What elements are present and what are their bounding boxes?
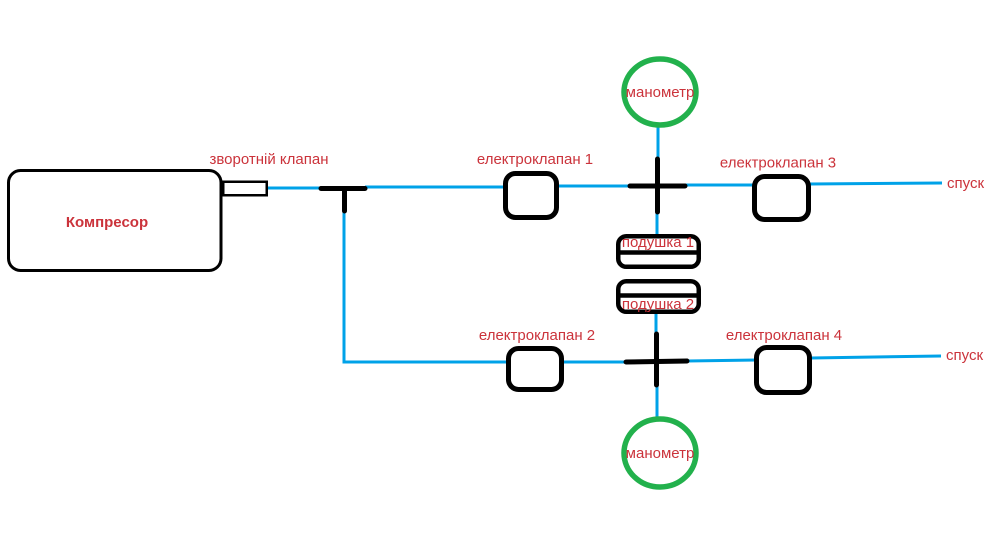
bottom manometer label манометр [626, 445, 695, 462]
wire: electrovalve 1 to cross junction 1 [557, 185, 630, 188]
svg-text:Компресор: Компресор [66, 214, 148, 231]
svg-text:подушка 1: подушка 1 [622, 234, 694, 251]
tee junction [321, 189, 365, 212]
wire: tee down-drop to bottom branch [344, 191, 508, 362]
svg-text:електроклапан 1: електроклапан 1 [477, 151, 593, 168]
bottom manometer [624, 419, 696, 487]
wire: electrovalve 3 to top vent (спуск) [809, 183, 942, 184]
airbag 2 label подушка 2 [622, 296, 694, 313]
wire: cross junction 2 to bottom manometer stem [656, 385, 659, 421]
top manometer [624, 59, 696, 125]
wire: airbag 2 to cross junction 2 [655, 312, 658, 334]
svg-text:спуск: спуск [947, 175, 984, 192]
electrovalve 4 [757, 348, 810, 393]
electrovalve 2 [509, 349, 562, 390]
svg-text:електроклапан 4: електроклапан 4 [726, 327, 842, 344]
electrovalve 4 label [726, 327, 842, 344]
wire: check valve to tee [267, 187, 322, 190]
check valve [223, 182, 267, 196]
svg-text:електроклапан 3: електроклапан 3 [720, 155, 836, 172]
electrovalve 1 label [477, 151, 593, 168]
electrovalve 2 label [479, 327, 595, 344]
wire: electrovalve 4 to bottom vent (спуск) [811, 356, 941, 358]
bottom vent label спуск [946, 347, 983, 364]
top vent label спуск [947, 175, 984, 192]
electrovalve 3 [755, 177, 809, 220]
svg-text:манометр: манометр [626, 445, 695, 462]
wire: cross junction 2 to electrovalve 4 [687, 360, 757, 361]
electrovalve 1 [506, 174, 557, 218]
compressor label Компресор [66, 214, 148, 231]
svg-text:зворотній клапан: зворотній клапан [210, 151, 329, 168]
wire: cross junction 1 to electrovalve 3 [685, 184, 755, 187]
svg-text:електроклапан 2: електроклапан 2 [479, 327, 595, 344]
electrovalve 3 label [720, 155, 836, 172]
airbag 1 label подушка 1 [622, 234, 694, 251]
wire: cross junction 1 to airbag 1 [656, 212, 659, 236]
top manometer label манометр [626, 84, 695, 101]
svg-text:манометр: манометр [626, 84, 695, 101]
wire: top manometer stem [657, 124, 660, 160]
check valve label зворотній клапан [210, 151, 329, 168]
compressor [9, 171, 222, 271]
svg-text:спуск: спуск [946, 347, 983, 364]
airbag 1 (подушка 1) [618, 236, 699, 267]
cross junction 2 [626, 334, 687, 385]
wire: tee to electrovalve 1 [365, 186, 506, 189]
cross junction 1 [630, 159, 685, 212]
airbag 2 (подушка 2) [618, 281, 699, 312]
wire: electrovalve 2 to cross junction 2 [562, 361, 626, 364]
svg-text:подушка 2: подушка 2 [622, 296, 694, 313]
